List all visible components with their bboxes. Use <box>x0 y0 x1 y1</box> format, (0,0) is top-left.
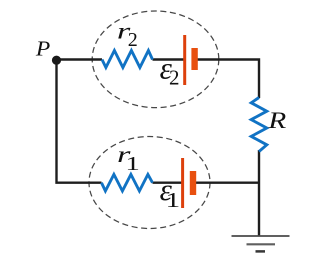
resistor r2 <box>102 51 153 68</box>
svg-text:R: R <box>267 108 286 133</box>
wire: left vertical P down to loop1 <box>57 60 102 183</box>
wire: R bottom through junction to ground <box>258 150 260 236</box>
svg-text:P: P <box>35 37 51 61</box>
resistor r1 <box>102 174 153 191</box>
ground bottom bar <box>256 250 266 253</box>
battery B2 short thick plate <box>191 48 197 70</box>
battery B2 long plate (emf ε2 positive terminal) <box>183 35 186 85</box>
wire: P to r2 <box>57 58 103 60</box>
loop 1 dashed ellipse <box>89 137 210 229</box>
node P <box>52 56 61 65</box>
svg-text:1: 1 <box>166 188 181 212</box>
battery B1 long plate (emf ε1) <box>181 158 184 208</box>
wire: battery1 to right junction <box>193 181 260 183</box>
loop 2 dashed ellipse <box>92 11 219 108</box>
svg-text:1: 1 <box>125 153 139 175</box>
wire: r1 to battery1 long plate <box>153 181 183 183</box>
svg-text:2: 2 <box>169 66 180 90</box>
resistor R <box>251 98 267 152</box>
battery B1 short thick plate <box>190 171 196 195</box>
svg-text:2: 2 <box>128 29 138 51</box>
ground middle bar <box>247 243 276 245</box>
wire: r2 to battery2 long plate <box>153 58 185 60</box>
ground top bar <box>232 235 290 237</box>
wire: battery2 to top-right corner and down to R <box>195 60 260 99</box>
